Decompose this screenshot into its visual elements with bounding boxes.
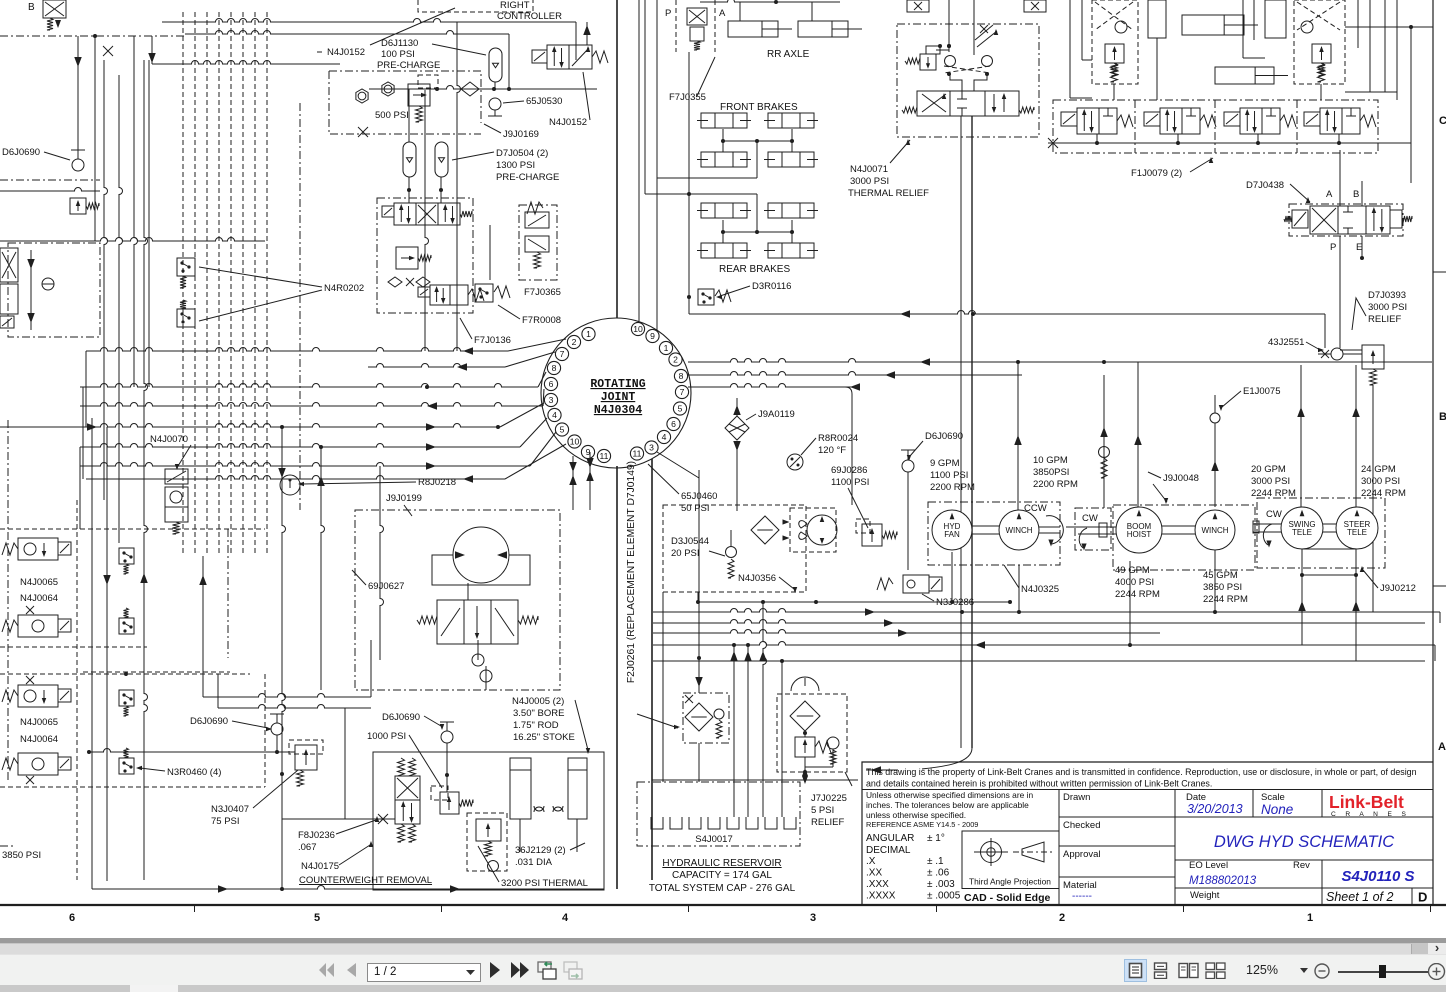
svg-text:RIGHT: RIGHT: [500, 0, 530, 11]
wire bundle top right c: [1357, 0, 1359, 48]
strainer check: [827, 737, 839, 749]
svg-text:75 PSI: 75 PSI: [211, 816, 240, 827]
circle D6J0690 topleft: [72, 159, 84, 171]
cw box boom: [1075, 508, 1111, 550]
svg-text:9: 9: [650, 331, 655, 341]
dashed wire x265: [264, 674, 266, 787]
rotating joint pin 2: [669, 353, 682, 366]
relief in N4J0071: [920, 54, 936, 70]
wire bundle top right d: [1082, 59, 1092, 61]
valve N4J0152: [532, 50, 547, 63]
svg-text:Drawn: Drawn: [1063, 792, 1090, 803]
page number box: [367, 963, 481, 982]
wire bus y466: [80, 463, 530, 466]
wire relief down: [1372, 385, 1374, 612]
component E1J0075: [1210, 413, 1220, 423]
svg-text:R8R0024: R8R0024: [818, 433, 858, 444]
svg-text:2244 RPM: 2244 RPM: [1251, 488, 1296, 499]
breather cap: [791, 677, 819, 691]
arrow y362: [920, 358, 930, 366]
svg-text:2244 RPM: 2244 RPM: [1115, 589, 1160, 600]
dashed vertical x77: [76, 500, 78, 880]
svg-text:EO Level: EO Level: [1189, 860, 1228, 871]
svg-text:J7J0225: J7J0225: [811, 793, 847, 804]
cw valve springs top: [398, 758, 405, 776]
dashed box 500psi: [418, 75, 438, 88]
svg-text:4: 4: [552, 410, 557, 420]
next view button (disabled): [563, 961, 583, 980]
svg-text:16.25" STOKE: 16.25" STOKE: [513, 732, 575, 743]
rr axle cylinder 1: [728, 21, 778, 37]
svg-text:3000 PSI: 3000 PSI: [850, 176, 889, 187]
svg-text:± .1: ± .1: [927, 856, 944, 867]
strainer valve: [795, 737, 815, 757]
svg-text:3: 3: [549, 395, 554, 405]
svg-text:N4J0065: N4J0065: [20, 577, 58, 588]
title block divider y789: [862, 789, 1433, 791]
wire winch1 drop: [1018, 565, 1020, 612]
rr axle feed wires: [700, 0, 840, 2]
bidir arrows below joint a: [572, 456, 574, 510]
leader J7J0225: [845, 772, 852, 786]
wire valve up arrow: [586, 22, 588, 45]
wire hline y602: [698, 601, 1010, 603]
valve N4R0202 b: [177, 309, 195, 327]
dash-dot y180 left: [0, 179, 100, 181]
dashed pilot bus wire: [254, 12, 256, 556]
wire f7 connects: [408, 89, 410, 142]
filter F2J0261 xmark: [685, 695, 693, 703]
row divider y860: [1175, 859, 1433, 861]
svg-text:FRONT BRAKES: FRONT BRAKES: [720, 102, 798, 113]
title divider x1322b: [1321, 860, 1323, 905]
relief D7J0393: [1362, 345, 1384, 369]
reservoir tank stub: [670, 817, 682, 829]
counterweight box: [373, 752, 604, 890]
svg-text:20 PSI: 20 PSI: [671, 548, 700, 559]
leader 69J0286: [848, 488, 868, 528]
standpipe left: [616, 466, 618, 889]
check row: [388, 277, 402, 287]
junction dots on bus: [425, 385, 429, 389]
front brake 2: [768, 113, 814, 128]
relief right: [1312, 44, 1331, 63]
svg-text:.031 DIA: .031 DIA: [515, 857, 553, 868]
valve N4R0202 a spring: [180, 276, 186, 288]
svg-text:and details contained herein i: and details contained herein is prohibit…: [866, 779, 1212, 789]
spring left tail: [1111, 63, 1118, 82]
wire slant to pin4: [520, 418, 547, 447]
rotating joint pin 11: [597, 449, 610, 462]
leader F2J0261: [637, 714, 678, 728]
svg-text:65J0530: 65J0530: [526, 96, 562, 107]
wire accumulator drop: [494, 82, 496, 89]
svg-text:1100 PSI: 1100 PSI: [930, 470, 968, 481]
wire vertical x282: [282, 427, 286, 884]
check left: [1115, 21, 1127, 33]
orifice F8J0236: [378, 814, 388, 824]
boom winch box: [1113, 505, 1255, 570]
rear brake feed: [689, 193, 757, 195]
shaft boom-winch: [1162, 525, 1195, 527]
svg-text:CW: CW: [1082, 513, 1098, 524]
title divider x1412: [1411, 888, 1413, 905]
svg-text:N4J0005 (2): N4J0005 (2): [512, 696, 564, 707]
svg-text:6: 6: [549, 379, 554, 389]
svg-text:7: 7: [560, 349, 565, 359]
arrow rail y645: [975, 641, 985, 649]
wire steer up: [1355, 365, 1357, 507]
wire verticals to joint x645: [644, 0, 646, 194]
svg-text:J9A0119: J9A0119: [758, 409, 795, 420]
valve D7J0438 box: [1289, 204, 1403, 236]
wire n4j0071 to cw: [370, 640, 372, 697]
pump circle J9J0199: [453, 527, 509, 583]
springs N4J0071: [902, 107, 917, 113]
svg-text:45 GPM: 45 GPM: [1203, 570, 1238, 581]
filter D3J0544: [751, 516, 779, 544]
svg-text:3000 PSI: 3000 PSI: [1368, 302, 1407, 313]
wire x468 drop: [467, 583, 469, 600]
svg-text:F2J0261 (REPLACEMENT ELEMENT D: F2J0261 (REPLACEMENT ELEMENT D7J0149): [626, 461, 637, 683]
svg-text:B: B: [28, 2, 35, 13]
relief left: [1105, 44, 1124, 63]
wire y34: [185, 31, 509, 35]
pump loop wires: [432, 555, 530, 585]
rear brake links: [722, 220, 724, 232]
standpipe right: [651, 459, 653, 880]
svg-text:9 GPM: 9 GPM: [930, 458, 960, 469]
wire vertical x321: [321, 447, 325, 690]
wire x447 down: [446, 743, 448, 792]
svg-text:3200 PSI THERMAL: 3200 PSI THERMAL: [501, 878, 588, 889]
motor HYD FAN: [932, 510, 972, 550]
row divider y817: [1059, 816, 1433, 818]
svg-text:10: 10: [633, 324, 643, 334]
valve D7J0438 sol right: [1390, 210, 1402, 228]
svg-text:DECIMAL: DECIMAL: [866, 845, 911, 856]
thermal relief 3200: [476, 819, 501, 841]
check right: [1301, 21, 1313, 33]
bank drops: [1096, 134, 1098, 143]
svg-text:2: 2: [1059, 912, 1065, 924]
front brake 1: [701, 113, 747, 128]
solenoid valve F1J0079 unit 4: [1304, 112, 1320, 126]
svg-text:N4J0064: N4J0064: [20, 734, 58, 745]
title block divider x1059: [1058, 790, 1060, 906]
dot junction x95 y36: [93, 34, 97, 38]
wire vertical x134: [134, 36, 138, 387]
dashed pilot bus wire: [182, 12, 184, 556]
component N4J0070: [165, 469, 188, 484]
wire slant to pin5: [530, 432, 556, 466]
reservoir tank stub: [765, 817, 777, 829]
wire y89 main: [369, 86, 597, 90]
rotating joint pin 7: [675, 385, 688, 398]
rear brake 3: [701, 243, 747, 258]
valve bank dividers: [1135, 100, 1297, 153]
svg-text:± .06: ± .06: [927, 868, 950, 879]
valve cluster main box: [377, 198, 473, 313]
leader D7J0393: [1352, 298, 1366, 330]
rotating joint pin 9: [581, 445, 594, 458]
projection box: [962, 831, 1059, 889]
svg-text:R8J0218: R8J0218: [418, 477, 456, 488]
wire x1385: [1384, 0, 1386, 92]
svg-text:D6J1130: D6J1130: [381, 38, 418, 49]
wire winch2 drop: [1214, 550, 1216, 612]
wire strainer drop: [804, 772, 806, 782]
wire filter drop: [698, 470, 700, 693]
rotating joint pin 1: [582, 327, 595, 340]
svg-text:COUNTERWEIGHT REMOVAL: COUNTERWEIGHT REMOVAL: [299, 875, 432, 886]
diamond check y89: [461, 82, 479, 96]
hydfan winch box: [928, 502, 1060, 565]
dashdot x300: [299, 103, 301, 510]
relief valve left: [70, 198, 86, 214]
svg-text:7: 7: [680, 387, 685, 397]
dashed pilot bus wire: [230, 12, 232, 556]
svg-text:J9J0212: J9J0212: [1380, 583, 1416, 594]
relief N3J0407: [295, 745, 317, 770]
reservoir tank stub: [708, 817, 720, 829]
dashed wire y674: [0, 673, 250, 675]
solenoid valve F1J0079 unit 1: [1061, 112, 1077, 126]
valve D7J0438 cells: [1310, 206, 1338, 234]
svg-text:24 GPM: 24 GPM: [1361, 464, 1396, 475]
valve reducing mid: [396, 247, 418, 269]
title block outline: [862, 762, 1433, 905]
taskbar edge strip: [0, 985, 1446, 992]
cw seals: [534, 806, 544, 812]
reservoir box S4J0017: [637, 782, 800, 846]
rotating joint pin 7: [555, 347, 568, 360]
svg-text:49 GPM: 49 GPM: [1115, 565, 1150, 576]
wire N4J0071 down: [971, 116, 973, 748]
component N3R0460 unit: [119, 758, 134, 774]
dashed pilot bus wire: [194, 12, 196, 556]
svg-text:Checked: Checked: [1063, 820, 1101, 831]
svg-text:1: 1: [664, 343, 669, 353]
svg-text:Unless otherwise specified dim: Unless otherwise specified dimensions ar…: [866, 790, 1033, 800]
svg-text:Link-Belt: Link-Belt: [1329, 792, 1404, 812]
svg-text:N4J0152: N4J0152: [549, 117, 587, 128]
svg-text:5: 5: [560, 425, 565, 435]
leader N3J0407: [253, 770, 298, 808]
wire N4J0071 down2: [960, 116, 962, 748]
svg-text:P: P: [665, 8, 671, 19]
rotating joint pin 6: [667, 417, 680, 430]
svg-text:JOINT: JOINT: [601, 391, 636, 404]
strainer diamond: [790, 701, 820, 731]
valve F7J0355: [676, 0, 715, 52]
svg-text:Approval: Approval: [1063, 849, 1101, 860]
svg-text:F8J0236: F8J0236: [298, 830, 335, 841]
svg-text:N4J0065: N4J0065: [20, 717, 58, 728]
dashed pilot bus wire: [218, 12, 220, 556]
svg-text:REAR BRAKES: REAR BRAKES: [719, 264, 790, 275]
svg-text:.XX: .XX: [866, 868, 882, 879]
svg-text:ANGULAR: ANGULAR: [866, 833, 914, 844]
projection symbol circle: [981, 842, 1002, 863]
reservoir drops: [733, 645, 735, 817]
wire bus y479: [86, 476, 505, 480]
border zone tick right y586: [1433, 585, 1446, 587]
accumulator D6J1130: [489, 48, 502, 82]
svg-text:3: 3: [810, 912, 816, 924]
wires D7J0438 bottom: [1339, 236, 1341, 348]
wire vertical x149: [148, 60, 150, 387]
leader N4R0202 b: [199, 290, 322, 321]
leader D6J1130: [432, 44, 486, 55]
svg-text:N4J0152: N4J0152: [327, 47, 365, 58]
sheet bottom border: [0, 904, 1446, 906]
svg-text:D7J0438: D7J0438: [1246, 180, 1284, 191]
svg-text:3850 PSI: 3850 PSI: [2, 850, 41, 861]
svg-text:5 PSI: 5 PSI: [811, 805, 834, 816]
leader 36J2129: [570, 843, 585, 850]
component J9A0119: [725, 416, 749, 440]
component F7R0008: [475, 284, 493, 302]
wire steer down: [1355, 575, 1357, 661]
sheet right border: [1432, 0, 1434, 905]
wire left y241: [0, 238, 265, 241]
wire slant to pin3: [500, 403, 544, 427]
relief D3J0544: [726, 547, 737, 558]
left cluster arrows: [27, 259, 35, 269]
filter F2J0261 box: [683, 693, 729, 743]
wire x92 long: [91, 418, 93, 889]
prop valve arrows: [441, 608, 460, 636]
component N3R0460 unit: [119, 618, 134, 634]
left valve assy 1: [2, 543, 18, 555]
svg-text:3: 3: [649, 443, 654, 453]
svg-text:D6J0690: D6J0690: [190, 716, 228, 727]
svg-text:N4J0356: N4J0356: [738, 573, 776, 584]
prop valve J9J0199: [417, 616, 437, 624]
svg-text:69J0627: 69J0627: [368, 581, 404, 592]
svg-text:.X: .X: [866, 856, 876, 867]
svg-text:± .003: ± .003: [927, 879, 955, 890]
svg-text:3.50" BORE: 3.50" BORE: [513, 708, 564, 719]
rotating joint pin 5: [555, 423, 568, 436]
filter F2J0261 check: [714, 709, 724, 719]
wire verticals to joint x657: [656, 0, 658, 178]
relief 69J0286: [862, 524, 882, 546]
svg-text:120 °F: 120 °F: [818, 445, 846, 456]
arrow y387r: [850, 383, 860, 391]
ccw arc: [1046, 516, 1063, 544]
wire bus y406: [80, 403, 543, 406]
spring right tail: [1318, 63, 1325, 82]
border zone ticks bottom: [194, 905, 196, 912]
wire swing up: [1300, 365, 1302, 507]
svg-text:3850PSI: 3850PSI: [1033, 467, 1069, 478]
row divider y888: [1175, 887, 1433, 889]
svg-text:Material: Material: [1063, 880, 1097, 891]
check 43J2551: [1331, 348, 1343, 360]
projection symbol cone: [1022, 842, 1044, 862]
svg-text:11: 11: [600, 451, 609, 461]
wire verticals to joint x617: [616, 0, 618, 318]
row divider y877: [1059, 876, 1175, 878]
cw arc swing: [1263, 524, 1272, 545]
shaft swing left: [1253, 523, 1281, 525]
wire y752 n3: [89, 749, 295, 753]
svg-text:RR AXLE: RR AXLE: [767, 49, 810, 60]
front brake 3: [701, 152, 747, 167]
leader D7J0504: [452, 152, 494, 160]
left cluster box: [0, 248, 18, 282]
svg-text:4: 4: [562, 912, 569, 924]
wire y708: [218, 705, 371, 709]
rotating joint pin 4: [657, 430, 670, 443]
svg-text:E1J0075: E1J0075: [1243, 386, 1281, 397]
motor BOOM HOIST: [1116, 507, 1162, 553]
first page button (disabled): [318, 963, 336, 977]
svg-text:E: E: [1356, 242, 1362, 253]
left valve assy 3: [2, 690, 18, 702]
rear brake 1: [701, 203, 747, 218]
cylinder top right b: [1215, 67, 1274, 84]
wire x1340 relief top: [1340, 349, 1362, 351]
wire x852 bend: [845, 387, 852, 505]
svg-text:DWG HYD SCHEMATIC: DWG HYD SCHEMATIC: [1214, 833, 1394, 851]
component 65J0460 relief: [1103, 375, 1105, 508]
two page view icon: [1178, 962, 1199, 979]
cw cylinder rods: [519, 819, 521, 852]
svg-text:± 1°: ± 1°: [927, 833, 945, 844]
wire x1397: [1396, 0, 1398, 100]
wire vertical x425: [425, 90, 429, 351]
svg-text:A: A: [1438, 741, 1446, 753]
svg-text:.XXXX: .XXXX: [866, 891, 896, 902]
strainer wires: [804, 733, 806, 737]
valve 500psi box: [408, 84, 430, 106]
junction dots y89: [435, 87, 439, 91]
svg-text:D7J0504 (2): D7J0504 (2): [496, 148, 548, 159]
wire bus y447: [80, 444, 520, 447]
rear brake 2: [768, 203, 814, 218]
svg-text:RELIEF: RELIEF: [811, 817, 844, 828]
hex fitting 2: [382, 82, 394, 96]
wire bundle top right b: [1242, 0, 1244, 58]
last page button: [510, 962, 530, 978]
svg-text:FAN: FAN: [944, 530, 960, 539]
svg-text:C R A N E S: C R A N E S: [1331, 811, 1410, 818]
rail y633: [653, 630, 1160, 634]
wire swing down: [1301, 575, 1303, 645]
wire y697: [203, 694, 371, 697]
svg-text:D3J0544: D3J0544: [671, 536, 709, 547]
rotating joint pin 8: [674, 369, 687, 382]
arrow on y367: [457, 363, 467, 371]
shaft swing-steer: [1323, 523, 1336, 525]
svg-text:S4J0017: S4J0017: [695, 834, 733, 845]
swing steer box: [1257, 498, 1385, 568]
svg-text:D6J0690: D6J0690: [382, 712, 420, 723]
svg-text:6: 6: [69, 912, 75, 924]
wire N4J0071 elbow: [922, 748, 972, 769]
svg-text:N3J0407: N3J0407: [211, 804, 249, 815]
rotating joint pin 10: [568, 435, 581, 448]
rotating joint pin 5: [673, 402, 686, 415]
svg-text:J9J0169: J9J0169: [503, 129, 539, 140]
solenoid valve F1J0079 unit 3: [1224, 112, 1240, 126]
valve feed throat: [950, 74, 987, 91]
zoom out: [1314, 963, 1331, 980]
dashed pilot bus wire: [242, 12, 244, 556]
